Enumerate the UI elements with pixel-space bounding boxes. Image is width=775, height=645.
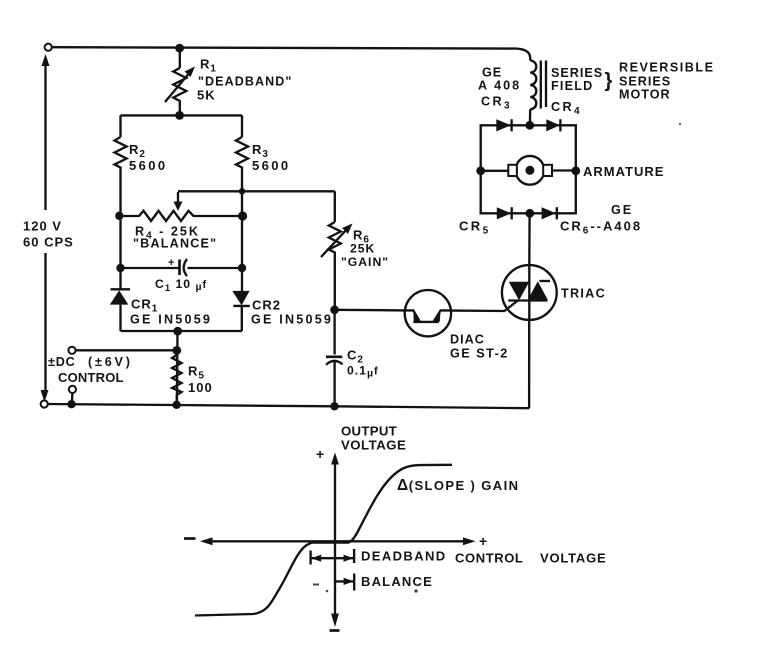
svg-text:FIELD: FIELD	[551, 79, 593, 93]
svg-text:GE IN5059: GE IN5059	[251, 313, 333, 327]
svg-text:±DC: ±DC	[48, 355, 76, 369]
svg-text:GE ST-2: GE ST-2	[450, 347, 509, 361]
svg-text:CR2: CR2	[252, 298, 281, 313]
svg-text:GE: GE	[611, 203, 633, 217]
svg-text:GE: GE	[482, 66, 502, 80]
svg-text:ARMATURE: ARMATURE	[583, 164, 664, 179]
svg-text:25K: 25K	[350, 242, 375, 256]
svg-text:+: +	[479, 533, 488, 549]
svg-text:+: +	[168, 257, 174, 269]
svg-text:REVERSIBLE: REVERSIBLE	[619, 61, 714, 75]
svg-text:5600: 5600	[129, 158, 168, 173]
svg-text:SERIES: SERIES	[619, 75, 671, 89]
svg-text:Δ(SLOPE ) GAIN: Δ(SLOPE ) GAIN	[397, 477, 519, 494]
svg-text:120 V: 120 V	[23, 219, 62, 234]
svg-text:CONTROL: CONTROL	[455, 551, 523, 566]
svg-text:TRIAC: TRIAC	[561, 287, 606, 301]
svg-text:(±6V): (±6V)	[88, 355, 133, 369]
svg-text:"BALANCE": "BALANCE"	[133, 237, 217, 251]
svg-text:5600: 5600	[252, 158, 291, 173]
svg-text:VOLTAGE: VOLTAGE	[341, 438, 406, 453]
svg-text:DEADBAND: DEADBAND	[361, 549, 447, 564]
svg-text:SERIES: SERIES	[551, 66, 603, 80]
svg-text:OUTPUT: OUTPUT	[341, 424, 397, 439]
svg-text:"GAIN": "GAIN"	[341, 255, 389, 269]
svg-text:DIAC: DIAC	[450, 333, 485, 347]
svg-text:VOLTAGE: VOLTAGE	[540, 551, 607, 566]
svg-text:100: 100	[188, 380, 213, 395]
svg-text:CONTROL: CONTROL	[58, 370, 124, 385]
svg-text:+: +	[316, 446, 325, 462]
svg-text:0.1µf: 0.1µf	[347, 364, 379, 380]
svg-text:60 CPS: 60 CPS	[23, 235, 74, 250]
svg-text:}: }	[605, 70, 613, 92]
svg-text:A 408: A 408	[478, 79, 521, 93]
svg-text:5K: 5K	[197, 88, 216, 103]
svg-text:GE IN5059: GE IN5059	[130, 313, 212, 327]
svg-text:"DEADBAND": "DEADBAND"	[198, 75, 292, 89]
svg-text:MOTOR: MOTOR	[619, 88, 671, 102]
svg-text:BALANCE: BALANCE	[361, 574, 433, 589]
